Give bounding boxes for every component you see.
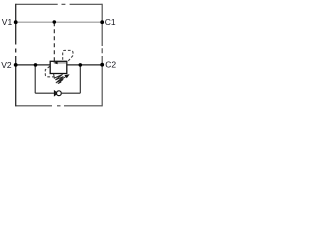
wire check branch bottom left [35,92,55,94]
svg-text:V2: V2 [1,60,12,70]
enclosure right rail [101,4,103,107]
node V1 junction [14,20,18,24]
drain hook bottom-left (dashed) [45,66,54,77]
check valve seat [54,91,57,96]
node check branch left junction [34,63,38,67]
valve arrow (left-pointing, offset) [57,62,67,64]
pilot dashed line from V1 line to valve [53,22,55,61]
wire check branch bottom right [62,92,80,94]
node V2 junction [14,63,18,67]
check valve ball [57,91,62,96]
enclosure bottom rail [16,105,103,107]
valve body U1 (relief square) [50,61,67,73]
node C2 junction [100,63,104,67]
svg-text:C2: C2 [105,60,116,70]
wire V1-C1 line [16,21,103,23]
spring adjust arrow [56,77,66,84]
pilot hook top-right (dashed) [63,50,73,61]
enclosure left rail [15,4,17,107]
wire V2-C2 line (right of valve) [67,64,102,66]
wire check branch right vertical [79,65,81,93]
wire check branch left vertical [34,65,36,93]
node check branch right junction [79,63,83,67]
svg-text:V1: V1 [2,17,13,27]
spring (zigzag) [54,74,64,84]
node C1 junction [100,20,104,24]
wire V2-C2 line (left of valve) [16,64,51,66]
enclosure top rail (long-dash short-dash) [16,3,103,5]
svg-text:C1: C1 [105,17,116,27]
node pilot tap junction [53,20,57,24]
